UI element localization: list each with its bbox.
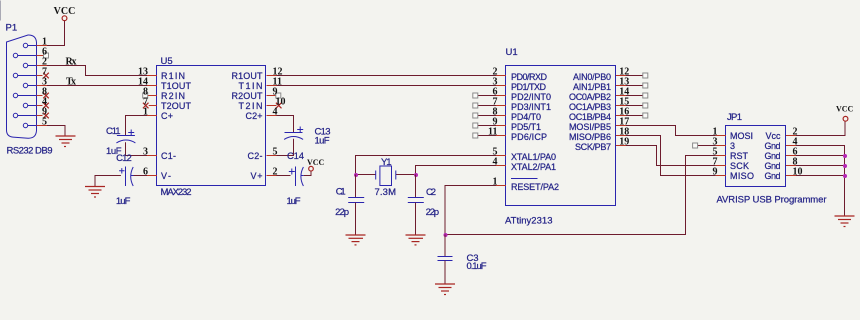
JP1 pin numbers right	[793, 127, 803, 178]
capacitor C12 (polarized, horizontal)	[119, 167, 133, 187]
IC U1 ATtiny2313 body	[506, 66, 616, 206]
svg-text:U5: U5	[161, 56, 173, 67]
svg-text:T2OUT: T2OUT	[161, 101, 192, 111]
ground symbol (C12)	[85, 187, 105, 198]
svg-text:0.1uF: 0.1uF	[467, 261, 487, 272]
svg-text:Rx: Rx	[66, 57, 77, 68]
svg-text:AVRISP USB Programmer: AVRISP USB Programmer	[717, 195, 827, 206]
svg-text:R2OUT: R2OUT	[232, 91, 264, 101]
svg-text:1uF: 1uF	[116, 196, 131, 207]
U5 left pin stubs	[147, 76, 157, 176]
svg-text:T2IN: T2IN	[239, 101, 263, 111]
capacitor C1	[348, 198, 364, 203]
crystal Y1	[376, 166, 396, 186]
svg-text:Vcc: Vcc	[766, 131, 782, 141]
svg-text:P1: P1	[6, 23, 18, 34]
wire C13 to U5.5 C2-	[277, 139, 294, 156]
svg-text:C11: C11	[106, 126, 121, 137]
wire crystal to C2	[415, 175, 417, 198]
capacitor C2	[408, 198, 424, 203]
wire U5.2 V+ to C14	[277, 175, 291, 177]
wire C11 to U5.3 C1-	[126, 142, 148, 155]
svg-text:PD2/INT0: PD2/INT0	[511, 92, 551, 102]
wire junction to C3	[444, 235, 446, 257]
svg-text:RST: RST	[730, 151, 749, 161]
connector JP1 body	[726, 126, 786, 187]
wire XTAL2 net U1.4 to crystal	[416, 166, 497, 175]
wire C2 to ground	[415, 203, 417, 236]
ground symbol (C3)	[435, 284, 455, 295]
svg-text:V+: V+	[251, 171, 263, 181]
svg-text:22p: 22p	[426, 207, 440, 218]
IC U5 MAX232 body	[157, 66, 266, 186]
svg-text:3: 3	[730, 141, 735, 151]
svg-text:Gnd: Gnd	[765, 141, 781, 151]
svg-text:T1IN: T1IN	[239, 81, 263, 91]
P1 pin stubs	[37, 46, 48, 126]
svg-text:C12: C12	[116, 153, 132, 164]
ground symbol (JP1)	[835, 216, 855, 227]
U5 no-connect X pin 7	[143, 103, 149, 109]
JP1 left pin stubs	[716, 136, 726, 176]
VCC symbol top-left	[54, 6, 76, 21]
svg-text:JP1: JP1	[727, 112, 742, 123]
U5 pin numbers left	[138, 67, 148, 178]
svg-text:V-: V-	[161, 171, 171, 181]
svg-text:Gnd: Gnd	[765, 161, 781, 171]
wire C12 to U5.6 V-	[134, 175, 148, 177]
wire C1 to ground	[355, 203, 357, 236]
svg-text:C2-: C2-	[248, 151, 263, 161]
U1 pin names right	[569, 72, 611, 152]
svg-text:OC1A/PB3: OC1A/PB3	[569, 102, 611, 112]
U1 left pin stubs	[496, 76, 506, 186]
wire SCK net U1.19 to JP1.7	[626, 146, 716, 166]
U5 pin names right	[232, 71, 264, 181]
wire Tx net P1.3 to U5.14	[47, 85, 147, 87]
wire MOSI net U1.17 to JP1.1	[626, 126, 716, 136]
svg-text:OC0A/PB2: OC0A/PB2	[569, 92, 611, 102]
U5 open square pin 9	[276, 93, 281, 98]
wire VCC to P1 pin 1	[47, 21, 65, 46]
svg-text:RESET/PA2: RESET/PA2	[511, 182, 559, 192]
P1 pin circles and inner leads	[13, 43, 36, 127]
svg-text:ATtiny2313: ATtiny2313	[505, 216, 553, 227]
svg-text:PD5/T1: PD5/T1	[511, 122, 541, 132]
junction (crystal right)	[414, 173, 418, 177]
ground symbol (C1)	[346, 235, 366, 245]
svg-text:MISO/PB6: MISO/PB6	[569, 132, 611, 142]
P1 pin numbers	[42, 37, 47, 128]
VCC symbol (C14)	[307, 158, 325, 171]
wire C3 to ground	[444, 261, 446, 285]
capacitor C13 (polarized, vertical)	[284, 127, 303, 140]
U1 pin numbers left	[488, 67, 497, 188]
JP1 pin names right	[765, 131, 782, 181]
svg-text:R1OUT: R1OUT	[232, 71, 264, 81]
ground symbol (P1 pin 5)	[56, 136, 76, 147]
junction (JP1 pin 10)	[843, 174, 847, 178]
connector P1 outline	[7, 35, 37, 138]
U1 right pin stubs	[616, 76, 626, 146]
svg-text:11: 11	[488, 127, 497, 138]
P1 open-end square pin 6	[44, 53, 49, 58]
svg-text:Gnd: Gnd	[765, 151, 781, 161]
wire U5.1 C+ to C11	[126, 116, 148, 136]
P1 no-connect X marks pins 7,8,4,9	[43, 73, 49, 119]
svg-text:XTAL2/PA1: XTAL2/PA1	[511, 162, 556, 172]
svg-text:XTAL1/PA0: XTAL1/PA0	[511, 152, 556, 162]
svg-text:7.3M: 7.3M	[375, 187, 397, 198]
svg-text:MISO: MISO	[730, 171, 754, 181]
wire crystal to C1	[355, 175, 357, 198]
junction (C3 / RESET)	[444, 233, 448, 237]
wire RESET net U1.1 to C3 junction to JP1.5 RST	[445, 156, 716, 235]
svg-text:MAX232: MAX232	[161, 187, 192, 198]
svg-text:C+: C+	[161, 111, 173, 121]
svg-text:PD6/ICP: PD6/ICP	[511, 132, 547, 142]
U5 pin numbers right	[273, 67, 286, 178]
VCC symbol (JP1)	[836, 105, 854, 122]
svg-text:1: 1	[493, 177, 498, 188]
U5 pin names left	[161, 71, 192, 181]
svg-text:U1: U1	[506, 47, 518, 58]
svg-text:SCK: SCK	[730, 161, 749, 171]
svg-text:T1OUT: T1OUT	[161, 81, 192, 91]
ground symbol (C2)	[406, 235, 426, 245]
svg-text:C2: C2	[426, 187, 436, 198]
wire C14 to VCC	[304, 171, 311, 175]
svg-text:1uF: 1uF	[315, 136, 330, 147]
svg-text:C2+: C2+	[246, 111, 263, 121]
U1 right no-connect wires and open squares pins 12-16	[626, 73, 648, 118]
svg-text:4: 4	[493, 157, 498, 168]
RESET overbar	[511, 178, 538, 180]
svg-text:RS232 DB9: RS232 DB9	[7, 146, 53, 157]
JP1 pin 3 no-connect wire and open square	[693, 143, 716, 148]
svg-text:Y1: Y1	[381, 157, 392, 168]
JP1 pin names left	[730, 131, 754, 181]
svg-text:VCC: VCC	[307, 158, 325, 167]
svg-text:SCK/PB7: SCK/PB7	[575, 142, 611, 152]
junction (crystal left)	[354, 173, 358, 177]
svg-text:PD1/TXD: PD1/TXD	[511, 82, 547, 92]
svg-text:Tx: Tx	[66, 77, 76, 88]
JP1 right pin stubs	[786, 136, 796, 176]
U1 left no-connect wires and open squares pins 6,7,8,9,11	[473, 93, 496, 138]
wire ground to C12	[95, 176, 121, 187]
capacitor C3	[438, 257, 453, 261]
svg-text:PD4/T0: PD4/T0	[511, 112, 541, 122]
svg-text:R1IN: R1IN	[161, 71, 185, 81]
junction (JP1 pin 8)	[843, 164, 847, 168]
wire R1OUT to PD0/RXD	[277, 75, 497, 77]
wire MISO net U1.18 to JP1.9	[626, 136, 716, 176]
wire JP1.2 Vcc to VCC	[796, 122, 845, 136]
svg-text:C14: C14	[287, 151, 304, 162]
U5 no-connect X pin 10	[276, 103, 282, 109]
svg-text:AIN0/PB0: AIN0/PB0	[573, 72, 611, 82]
svg-text:1uF: 1uF	[287, 196, 301, 207]
svg-text:C1-: C1-	[161, 151, 176, 161]
svg-text:Gnd: Gnd	[765, 171, 781, 181]
capacitor C14 (polarized, horizontal)	[289, 167, 304, 187]
U1 pin names left	[511, 72, 559, 192]
svg-text:OC1B/PB4: OC1B/PB4	[569, 112, 611, 122]
wire crystal left lead	[356, 174, 376, 176]
wire U5.4 C2+ to C13	[277, 116, 294, 133]
svg-text:22p: 22p	[335, 207, 349, 218]
svg-text:MOSI: MOSI	[730, 131, 753, 141]
JP1 pin numbers left	[713, 127, 718, 178]
junction (JP1 pin 6)	[843, 154, 847, 158]
wire T1IN to PD1/TXD	[277, 85, 497, 87]
svg-text:9: 9	[713, 167, 718, 178]
svg-text:PD0/RXD: PD0/RXD	[511, 72, 548, 82]
capacitor C11 (polarized, vertical)	[116, 130, 135, 143]
U5 no-connect square pin 8	[143, 93, 148, 98]
wire XTAL1 net U1.5 to crystal	[356, 156, 497, 175]
svg-text:VCC: VCC	[836, 105, 854, 114]
wire P1.5 to ground	[47, 126, 65, 137]
U1 pin numbers right	[619, 67, 629, 148]
wire JP1 ground bus pins 4,6,8,10	[796, 146, 845, 217]
svg-text:5: 5	[42, 117, 47, 128]
svg-text:MOSI/PB5: MOSI/PB5	[569, 122, 611, 132]
wire Rx net P1.2 to U5.13	[47, 66, 147, 76]
svg-text:AIN1/PB1: AIN1/PB1	[573, 82, 611, 92]
svg-text:R2IN: R2IN	[161, 91, 185, 101]
svg-text:C1: C1	[336, 187, 346, 198]
U5 right pin stubs	[267, 76, 277, 176]
wire crystal right lead	[396, 174, 416, 176]
svg-text:PD3/INT1: PD3/INT1	[511, 102, 551, 112]
